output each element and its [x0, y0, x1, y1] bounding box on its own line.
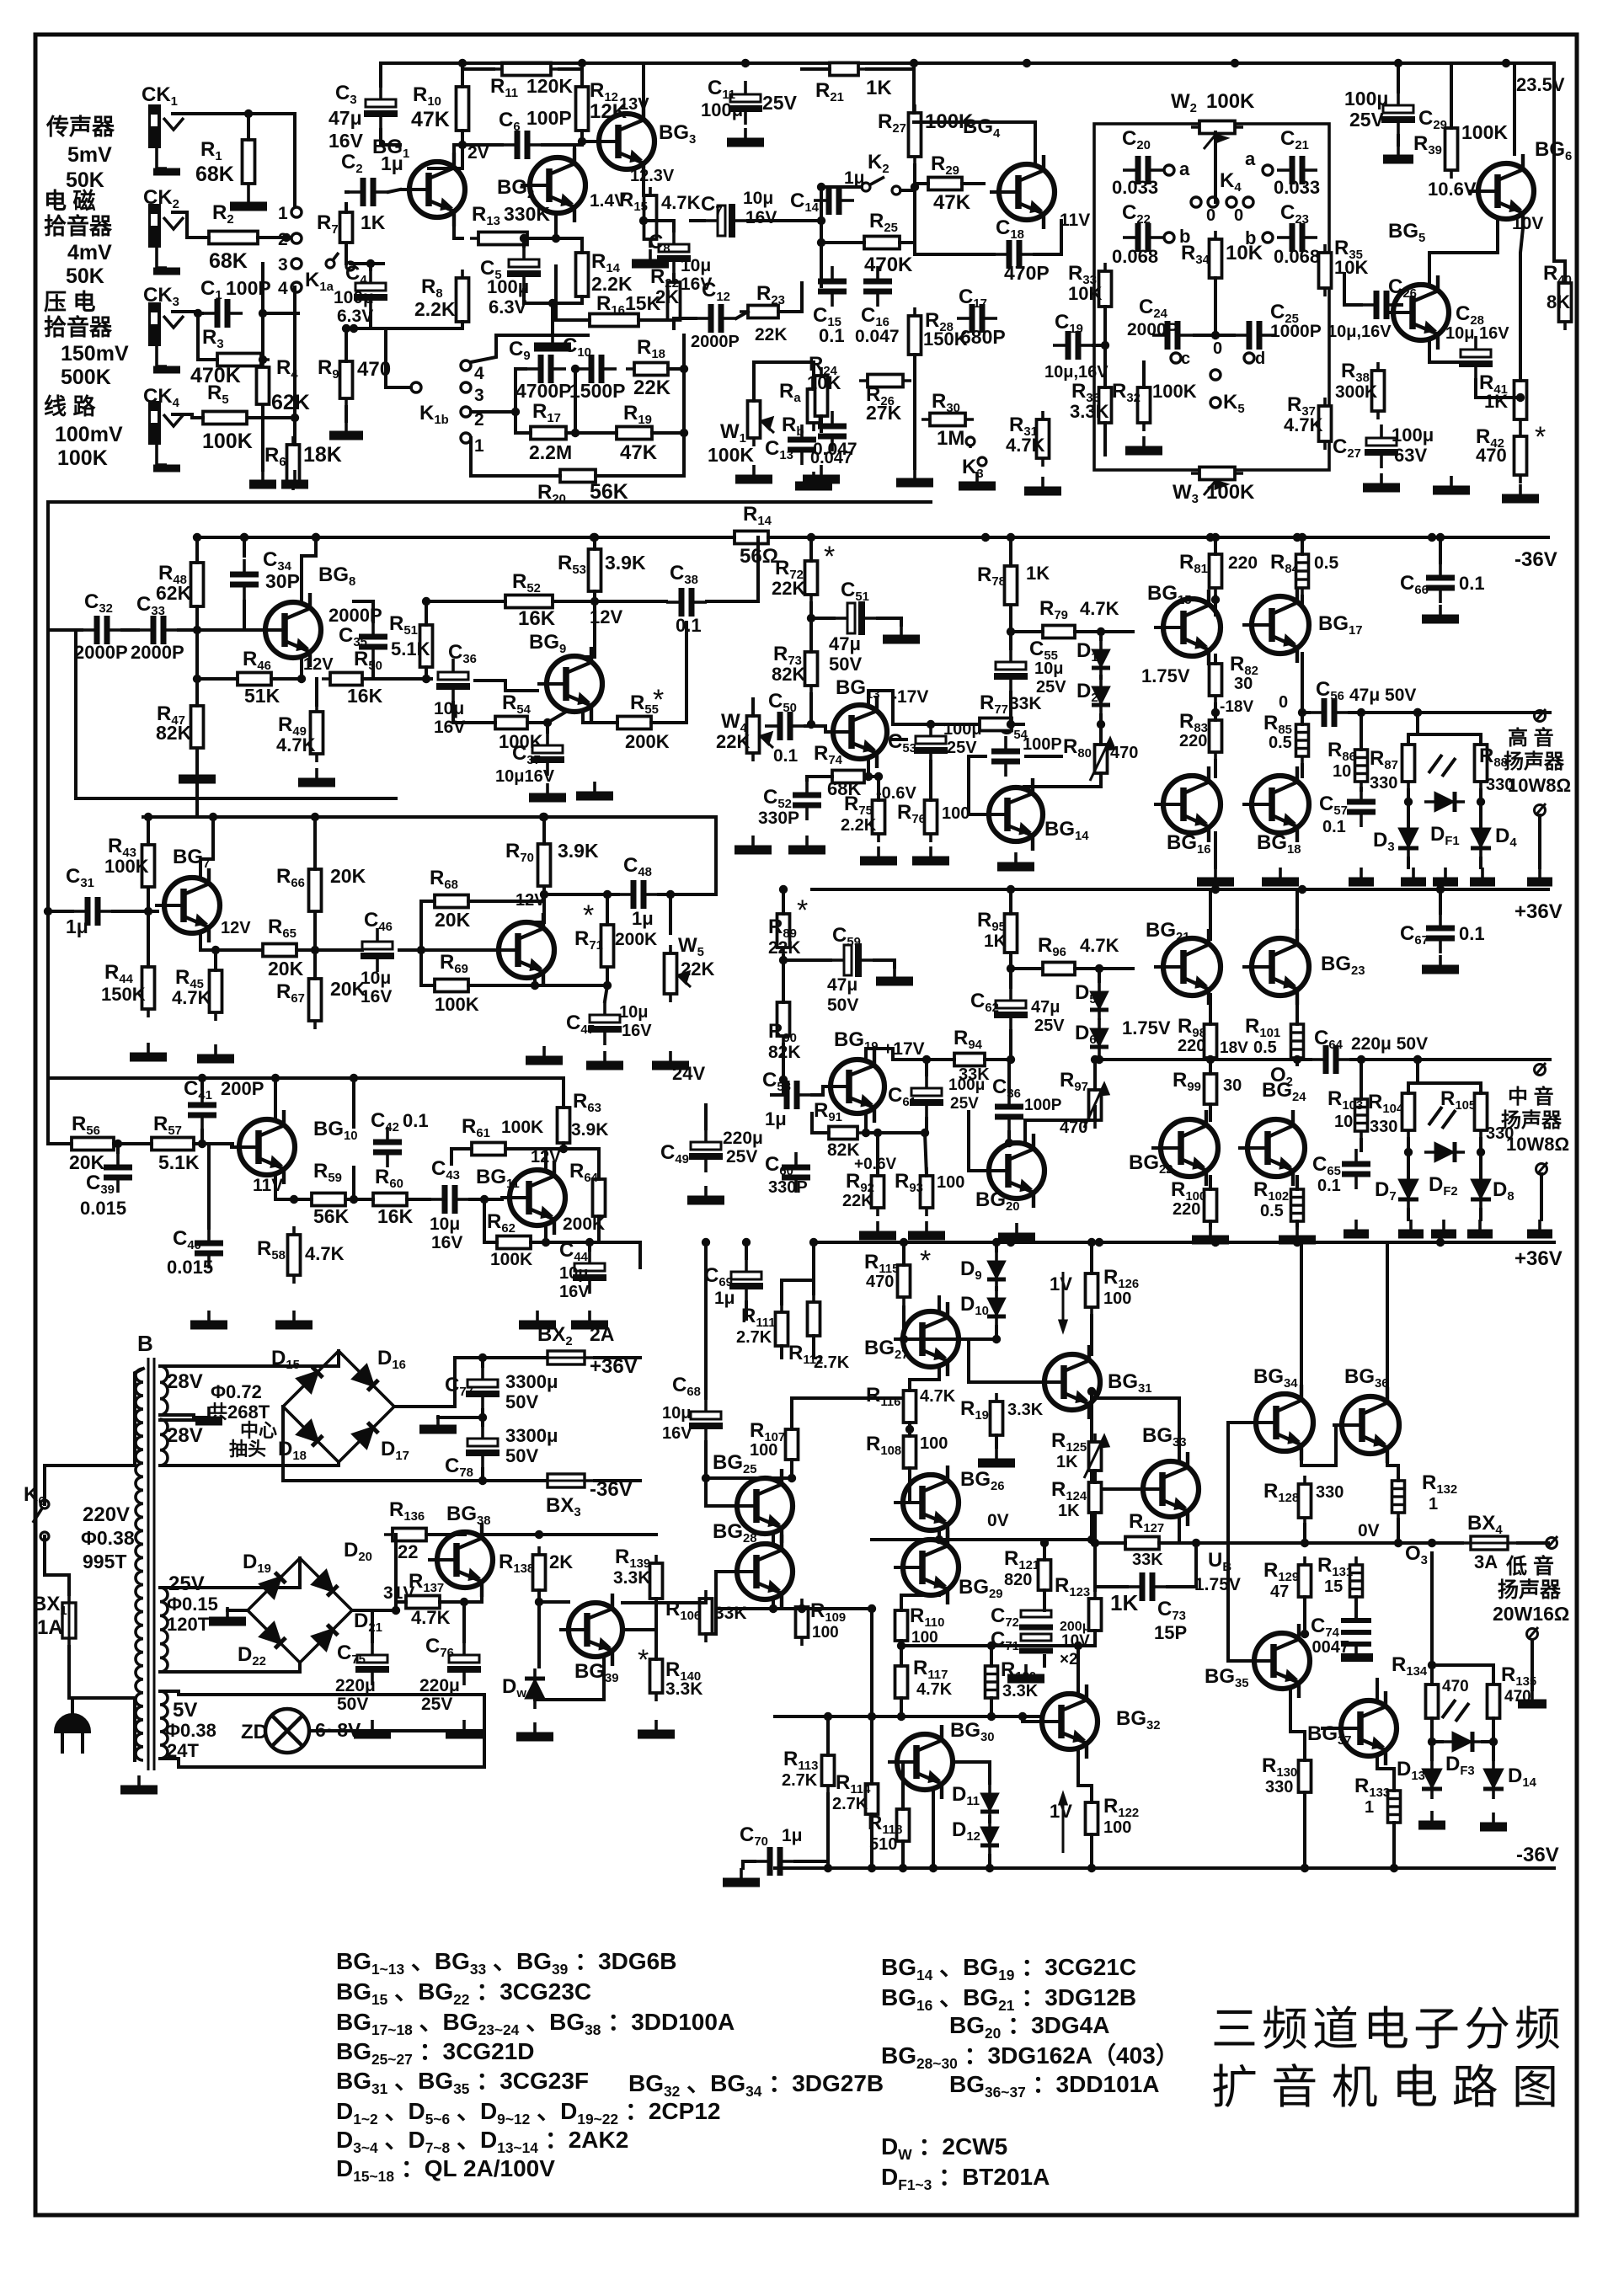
svg-text:100mV: 100mV — [55, 423, 123, 446]
svg-text:47K: 47K — [933, 191, 971, 214]
wire BG32 base — [1023, 1716, 1034, 1722]
resistor R136 — [384, 1529, 435, 1541]
wire mid to gnd — [438, 1416, 483, 1419]
svg-text:d: d — [1255, 350, 1265, 368]
wire R88 top — [1479, 734, 1482, 745]
svg-text:22K: 22K — [772, 578, 805, 599]
resistor R9 — [340, 353, 353, 407]
wire R108 to BG26 base — [895, 1468, 910, 1503]
svg-text:10μ: 10μ — [559, 1264, 588, 1283]
capacitor C13 — [788, 424, 816, 465]
svg-text:28V: 28V — [167, 1424, 203, 1447]
junction — [992, 1238, 1001, 1247]
bridge rectifier D15-D18 — [283, 1351, 394, 1462]
wire R84 top — [1301, 537, 1304, 554]
svg-text:28V: 28V — [167, 1370, 203, 1393]
svg-text:2.7K: 2.7K — [832, 1795, 868, 1813]
capacitor C53 — [914, 723, 948, 766]
wire R12 to BG3 base — [582, 131, 599, 141]
resistor R8 — [457, 270, 469, 330]
svg-text:16K: 16K — [377, 1205, 414, 1227]
capacitor C55 — [994, 649, 1028, 692]
svg-text:25V: 25V — [1034, 1017, 1065, 1035]
wire R115 down — [902, 1307, 905, 1339]
resistor R130 — [1299, 1752, 1311, 1801]
svg-text:0.047: 0.047 — [810, 449, 852, 467]
ground under BG11u — [526, 1046, 563, 1060]
junction — [460, 1598, 468, 1606]
wire C4 bottom rail — [371, 313, 462, 328]
wire to C18 — [915, 187, 994, 254]
ground under C40 — [190, 1311, 227, 1325]
wire R29 to BG4 — [962, 182, 984, 185]
wire R57 to BG10 — [194, 1142, 232, 1145]
capacitor C4 — [354, 270, 387, 313]
wire R110 down — [900, 1641, 903, 1646]
svg-text:150K: 150K — [923, 328, 968, 350]
junction — [1095, 1238, 1103, 1247]
wire BG31 base from BG27 — [959, 1339, 1038, 1382]
svg-text:抽头: 抽头 — [229, 1439, 266, 1460]
resistor R83 — [1210, 712, 1222, 761]
ground under W1 — [735, 465, 772, 479]
wire R74 to C52 — [807, 777, 832, 780]
svg-text:330: 330 — [1370, 1118, 1397, 1136]
wire C58 to BG19 — [812, 1086, 823, 1095]
junction — [702, 1474, 710, 1482]
switch K2 — [862, 177, 900, 195]
wire +36V bus — [812, 888, 1548, 891]
svg-text:20K: 20K — [435, 909, 471, 931]
svg-text:3.9K: 3.9K — [605, 552, 646, 574]
junction bus — [1293, 533, 1301, 542]
resistor R4 — [257, 359, 270, 413]
wire D8 gnd — [1479, 1209, 1482, 1220]
wire BG3 emitter to R15 — [644, 179, 650, 195]
svg-text:3.3K: 3.3K — [1070, 401, 1109, 422]
speaker terminal high - — [1535, 803, 1547, 816]
junction — [1404, 1148, 1413, 1156]
wire to C9 — [516, 369, 526, 412]
ground under R42 — [1502, 484, 1539, 499]
wire R72-R73 — [809, 603, 813, 652]
wire BG33 emitter — [1178, 1517, 1181, 1543]
wire band divider — [48, 500, 931, 504]
wire node up to contact3 — [261, 264, 264, 360]
speaker terminal mid - — [1536, 1162, 1548, 1175]
transistor BG34 — [1247, 1385, 1313, 1460]
junction top bus — [1023, 59, 1031, 67]
resistor R61 — [463, 1143, 514, 1156]
svg-text:3300μ: 3300μ — [505, 1425, 558, 1446]
wire W1 Ra top rail — [754, 360, 814, 364]
junction — [1007, 1238, 1015, 1247]
wire C75 top — [371, 1610, 374, 1642]
resistor R131 — [1350, 1556, 1363, 1605]
capacitor C23 — [1277, 223, 1317, 252]
wire R98-R99 — [1209, 1065, 1212, 1074]
junction — [1436, 533, 1445, 542]
junction — [1394, 1539, 1402, 1547]
svg-text:*: * — [653, 684, 664, 716]
svg-text:47μ: 47μ — [829, 633, 861, 654]
wire to R67 — [313, 950, 317, 979]
wire D13 to DF3 — [1432, 1740, 1442, 1743]
svg-text:23.5V: 23.5V — [1516, 74, 1565, 95]
junction — [311, 813, 319, 821]
svg-text:82K: 82K — [772, 664, 805, 685]
svg-text:4.7K: 4.7K — [1284, 414, 1323, 435]
junction — [900, 1238, 908, 1247]
svg-text:10.6V: 10.6V — [1428, 179, 1477, 200]
wire to BG9 emitter — [548, 712, 566, 723]
junction — [817, 183, 825, 191]
wire 25V winding bottom — [160, 1663, 300, 1672]
wire C24 C25 center — [1194, 296, 1215, 335]
wire to BG15 base — [1101, 630, 1133, 633]
svg-text:51K: 51K — [244, 685, 280, 707]
resistor R43 — [142, 836, 155, 895]
wire C32 left — [48, 628, 82, 632]
wire BG37 emitter to R133 — [1377, 1756, 1394, 1791]
wire C68 top — [704, 1242, 708, 1398]
ground D8 — [1467, 1220, 1493, 1234]
wire R21 left — [802, 67, 830, 71]
svg-text:995T: 995T — [83, 1551, 126, 1572]
junction — [603, 890, 612, 899]
svg-text:47K: 47K — [411, 108, 450, 131]
svg-text:扬声器: 扬声器 — [1504, 750, 1565, 773]
wire node to K1a contact 1 — [248, 114, 295, 206]
svg-text:4.7K: 4.7K — [1080, 935, 1119, 956]
svg-text:Φ0.72: Φ0.72 — [211, 1381, 262, 1402]
junction — [422, 675, 430, 683]
ground speaker — [1527, 868, 1552, 882]
wire R139 to BG39 — [622, 1599, 656, 1630]
fuse BX3 — [537, 1474, 595, 1487]
capacitor C5 — [507, 246, 541, 290]
resistor R7 — [340, 204, 353, 251]
wire R107 top — [792, 1398, 904, 1429]
junction — [540, 890, 548, 899]
wire R49 top — [315, 679, 318, 705]
svg-text:18K: 18K — [303, 443, 342, 467]
capacitor C58 — [772, 1081, 812, 1109]
wire output rail mid — [1215, 1058, 1311, 1061]
ground C66 — [1422, 605, 1459, 619]
wire rail 1954 — [901, 1644, 1093, 1647]
svg-text:820: 820 — [1004, 1571, 1032, 1589]
junction — [809, 1238, 818, 1247]
svg-text:100K: 100K — [1206, 481, 1255, 504]
junction — [1095, 964, 1103, 973]
wire C34 top — [243, 537, 246, 556]
wire C2 to BG1 base — [388, 190, 400, 192]
transistor BG9 — [537, 647, 602, 721]
resistor R30 — [922, 414, 974, 426]
wire BG6 collector — [1513, 63, 1516, 154]
wire 0V output rail — [1196, 1541, 1462, 1545]
resistor R115 — [898, 1257, 911, 1305]
wire +V top bus — [381, 61, 1554, 65]
junction — [779, 885, 788, 894]
ground R76 — [912, 846, 949, 861]
wire R70 to collector — [535, 888, 544, 922]
svg-text:20W16Ω: 20W16Ω — [1493, 1603, 1569, 1625]
junction — [417, 946, 425, 954]
svg-text:200K: 200K — [625, 731, 670, 752]
svg-text:25V: 25V — [950, 1095, 979, 1113]
svg-text:15P: 15P — [1154, 1622, 1187, 1643]
wire R121 top — [1043, 1543, 1046, 1560]
junction — [291, 414, 299, 422]
junction — [603, 981, 612, 990]
wire C41 down — [200, 1130, 204, 1144]
wire C42 down — [352, 1167, 355, 1199]
junction — [1091, 1055, 1099, 1064]
wire rail 1910 — [716, 1607, 872, 1610]
junction — [921, 1129, 929, 1137]
wire to C31 — [48, 910, 72, 913]
wire C44 top — [588, 1242, 591, 1250]
wire C36 to BG9 base — [475, 681, 537, 691]
wire R80 down — [1024, 773, 1101, 787]
wire R106 top — [622, 1599, 706, 1603]
ground under R45 — [197, 1044, 234, 1059]
wire C70 gnd — [743, 1861, 755, 1868]
wire R81 to BG15 — [1214, 596, 1217, 600]
wire left rail — [820, 187, 823, 286]
capacitor C43 — [430, 1185, 470, 1214]
svg-text:3.3K: 3.3K — [1002, 1682, 1039, 1700]
svg-text:100μ: 100μ — [1344, 88, 1388, 109]
transistor BG20 — [980, 1134, 1044, 1208]
svg-text:10K: 10K — [807, 372, 841, 393]
junction — [548, 299, 557, 307]
svg-text:500K: 500K — [61, 366, 111, 389]
junction — [899, 1864, 907, 1872]
wire D9-D10 — [995, 1288, 998, 1289]
svg-text:*: * — [797, 894, 808, 926]
wire C32-C33 — [122, 628, 138, 632]
wire feedback box bottom — [76, 797, 396, 800]
jack CK4 — [148, 401, 184, 468]
svg-text:100μ: 100μ — [701, 99, 743, 120]
wire R115 top — [902, 1242, 905, 1265]
wire bridge2 left — [227, 1609, 248, 1612]
junction — [144, 907, 152, 916]
ground under R49 — [298, 768, 335, 782]
svg-text:510: 510 — [869, 1835, 897, 1854]
ground C71 — [1007, 1664, 1044, 1679]
speaker terminal high + — [1535, 709, 1547, 722]
resistor R71 — [601, 916, 614, 975]
ground under C37 — [529, 783, 566, 798]
svg-text:22: 22 — [398, 1541, 418, 1562]
ground D13 — [1418, 1811, 1445, 1825]
resistor R35 — [1319, 244, 1332, 296]
junction +36 bus — [1211, 885, 1220, 894]
junction — [198, 1140, 206, 1148]
wire R95 down — [1009, 956, 1012, 987]
svg-text:3.9K: 3.9K — [558, 840, 599, 862]
wire D10 down — [995, 1327, 998, 1339]
wire C49 top — [704, 1105, 708, 1129]
resistor R92 — [872, 1167, 884, 1216]
wire R10 top — [461, 63, 464, 87]
junction — [1007, 533, 1015, 542]
wire feedback box left — [74, 630, 77, 798]
wire — [1295, 1221, 1299, 1225]
transistor BG13 — [824, 696, 887, 768]
svg-text:2.2K: 2.2K — [841, 816, 877, 835]
wire R36 down — [1103, 423, 1107, 455]
ground C29 — [1383, 145, 1413, 159]
svg-text:2.7K: 2.7K — [736, 1328, 772, 1347]
resistor R14 56 — [726, 531, 777, 544]
svg-text:20K: 20K — [268, 958, 304, 980]
junction top bus — [578, 59, 586, 67]
wire BG7 collector — [200, 817, 213, 878]
junction — [639, 216, 648, 225]
junction — [271, 1074, 280, 1082]
capacitor C37 — [531, 732, 564, 776]
resistor R72 — [805, 553, 818, 603]
resistor R64 — [593, 1171, 606, 1225]
svg-text:4700P: 4700P — [516, 380, 572, 402]
svg-text:25V: 25V — [726, 1147, 757, 1167]
transistor BG11 upper — [489, 913, 554, 987]
transformer core — [148, 1358, 154, 1770]
wire C28 to R41 — [1476, 380, 1520, 398]
resistor R103 — [1355, 1091, 1368, 1140]
wire C77-C78 — [481, 1410, 484, 1425]
rheostat R97 — [1089, 1081, 1102, 1129]
wire R18 right — [668, 367, 684, 371]
svg-text:5.1K: 5.1K — [158, 1151, 200, 1173]
capacitor C17 — [957, 304, 997, 333]
svg-text:3300μ: 3300μ — [505, 1371, 558, 1392]
capacitor C68 — [689, 1398, 723, 1442]
wire D7 gnd — [1407, 1209, 1410, 1220]
junction — [193, 533, 201, 542]
wire C37 top — [546, 723, 549, 732]
wire R78 top — [1009, 537, 1012, 566]
resistor R86 — [1355, 741, 1368, 790]
svg-text:33K: 33K — [959, 1065, 990, 1084]
junction — [868, 1712, 876, 1721]
capacitor C42 — [373, 1127, 402, 1167]
ground D4 — [1470, 868, 1495, 882]
resistor R1 — [243, 131, 255, 192]
wire to C28 — [1429, 360, 1476, 364]
svg-text:1A: 1A — [37, 1616, 63, 1639]
junction — [114, 1140, 122, 1148]
wire C55 down — [1009, 692, 1012, 724]
ground under R140 — [638, 1720, 675, 1734]
junction — [1007, 627, 1015, 636]
ground C65 — [1344, 1220, 1369, 1234]
wire R53 bottom — [593, 591, 596, 601]
wire C66 top — [1439, 537, 1442, 563]
K4 contact 3 — [1226, 197, 1237, 207]
wire R63 top — [562, 1078, 565, 1108]
wire contact4 up — [471, 335, 496, 362]
junction — [1040, 1539, 1049, 1547]
ground BG20 — [998, 1223, 1035, 1237]
junction — [1211, 331, 1220, 339]
resistor R121 — [1039, 1551, 1051, 1599]
svg-text:4mV: 4mV — [67, 241, 112, 264]
ground BG18 — [1262, 868, 1299, 882]
junction — [1007, 964, 1015, 973]
ground C67 — [1422, 955, 1459, 969]
resistor R96 — [1034, 963, 1083, 975]
diode D9 — [987, 1251, 1006, 1289]
zener diode Dw — [525, 1668, 545, 1709]
svg-text:0.1: 0.1 — [1459, 573, 1485, 594]
ground BG24 — [1279, 1225, 1316, 1240]
wire to crossfeed — [599, 1242, 640, 1268]
wire BX1 to plug — [69, 1647, 72, 1698]
ground under R47 — [179, 765, 216, 779]
wire to R79 — [1011, 630, 1043, 633]
svg-text:5mV: 5mV — [67, 143, 112, 167]
svg-text:22K: 22K — [842, 1192, 873, 1210]
svg-text:47: 47 — [1270, 1583, 1289, 1601]
svg-text:1.75V: 1.75V — [1194, 1575, 1241, 1594]
resistor R13 — [470, 232, 536, 245]
capacitor C48 — [618, 880, 659, 909]
mains plug — [56, 1698, 89, 1754]
diode D14 — [1483, 1759, 1504, 1799]
wire to R136 — [394, 1535, 398, 1610]
wire R139 top — [539, 1533, 656, 1536]
svg-text:0.1: 0.1 — [1459, 923, 1485, 944]
svg-text:线 路: 线 路 — [44, 393, 97, 419]
junction — [1095, 1055, 1103, 1064]
junction bus — [981, 533, 990, 542]
capacitor C39 — [104, 1152, 132, 1193]
wire R62 to emitter — [531, 1225, 546, 1242]
terminal b left — [1164, 232, 1174, 243]
junction — [817, 238, 825, 247]
wire C7 right — [748, 219, 762, 222]
transistor BG14 — [980, 778, 1043, 851]
junction — [1413, 708, 1422, 717]
wire — [878, 1131, 925, 1134]
resistor R120 — [986, 1658, 998, 1706]
wire R79 to D1 — [1075, 632, 1101, 639]
junction — [552, 234, 560, 243]
resistor R69 — [426, 980, 477, 992]
wire C54 right — [1026, 755, 1061, 758]
ground DF2 — [1431, 1220, 1456, 1234]
svg-text:330P: 330P — [758, 809, 799, 828]
wire mid terminal down — [1540, 1174, 1543, 1220]
wire C7 left — [691, 219, 704, 222]
ground D7 — [1398, 1220, 1424, 1234]
wire C62 down — [1009, 1031, 1012, 1060]
resistor R107 — [786, 1421, 799, 1468]
svg-text:BG25~27 ：3CG21D: BG25~27 ：3CG21D — [336, 2038, 535, 2068]
ground R93 — [908, 1221, 945, 1236]
junction — [987, 1642, 996, 1650]
svg-text:11V: 11V — [1060, 211, 1090, 230]
wire R16 left — [556, 266, 590, 320]
junction — [1428, 1661, 1436, 1669]
junction — [297, 675, 306, 683]
